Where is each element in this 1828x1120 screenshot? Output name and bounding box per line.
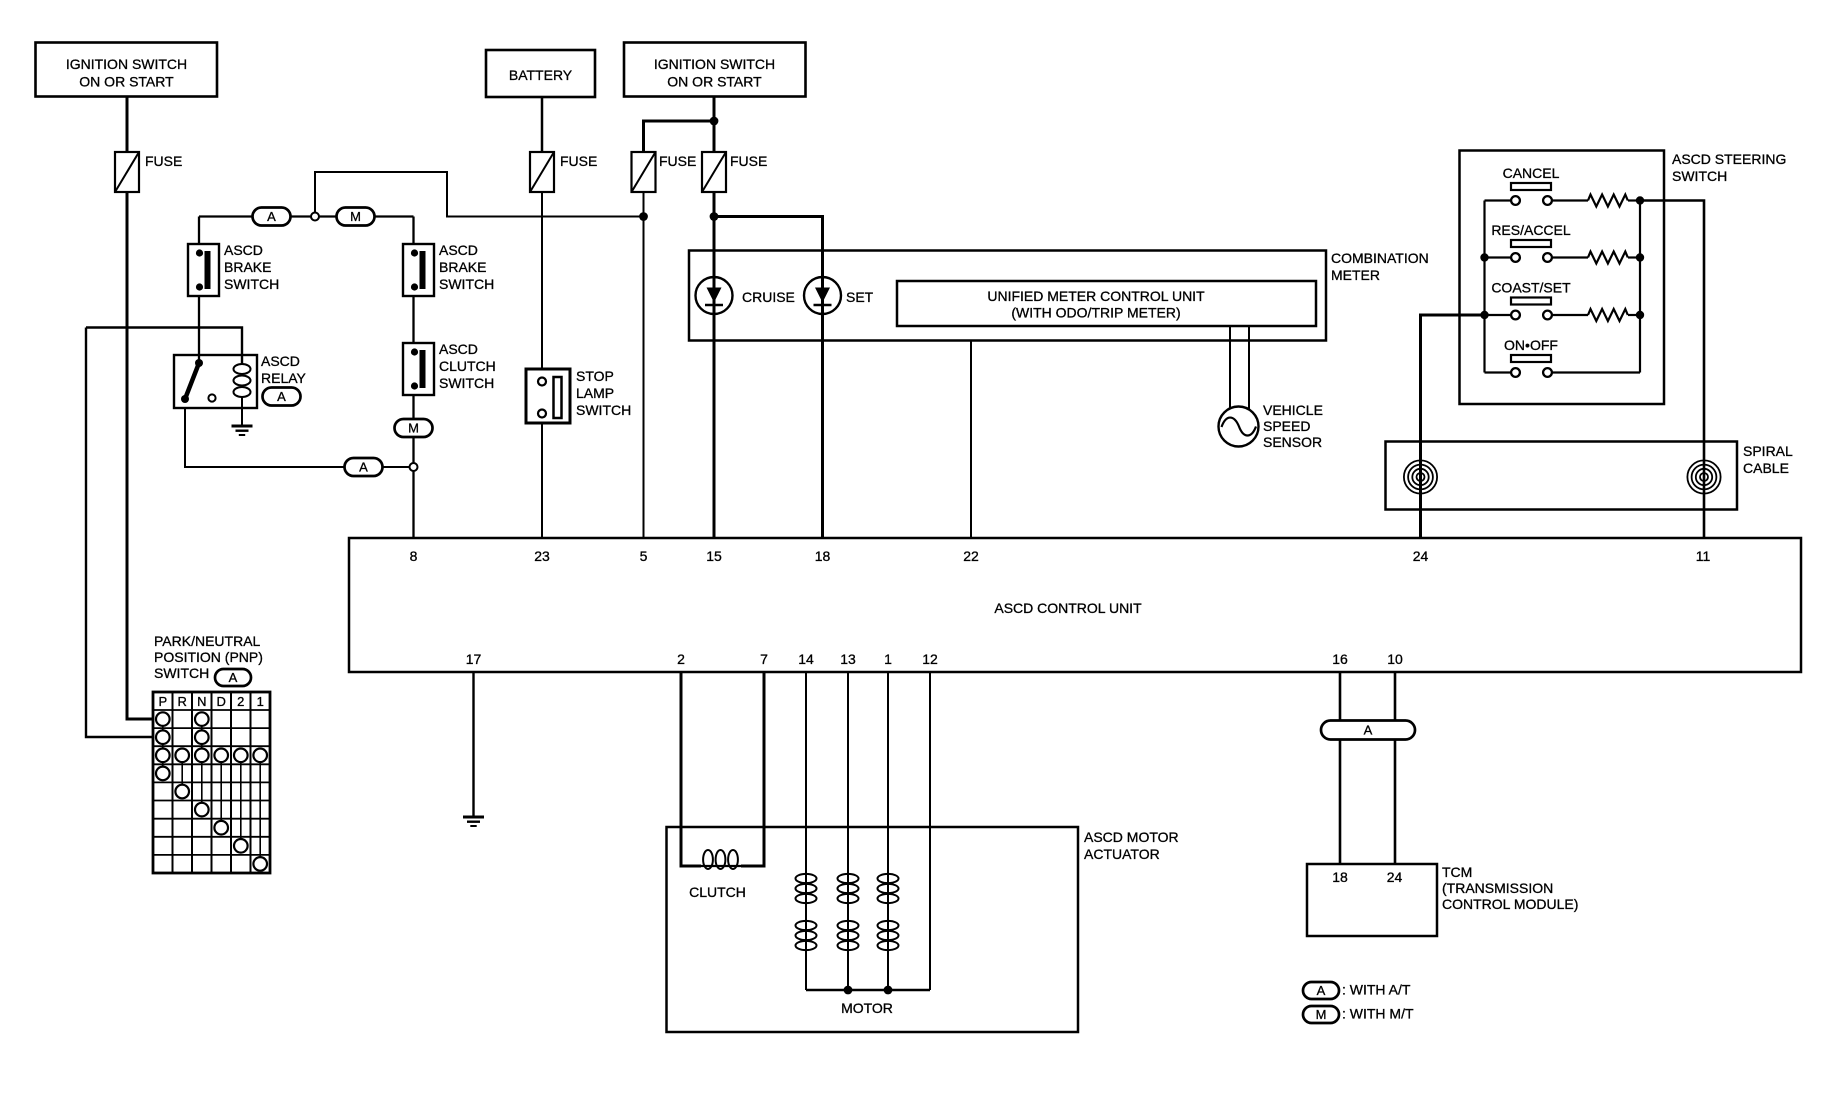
svg-text:13: 13: [840, 651, 856, 667]
svg-text:24: 24: [1387, 869, 1403, 885]
wire to right brake switch: [412, 217, 414, 245]
steering switch row ON&#8226;OFF: [1485, 337, 1558, 377]
wire F2 to stop lamp switch: [541, 192, 543, 369]
wire brake to clutch switch: [412, 296, 414, 343]
PNP contact connector lines: [163, 719, 260, 864]
svg-text:ASCD: ASCD: [439, 242, 478, 258]
steering switch row COAST/SET: [1485, 280, 1572, 320]
wire stop lamp switch to pin 23: [541, 423, 543, 538]
wire branch through SET lamp to pin 18: [714, 217, 823, 539]
svg-text:SWITCH: SWITCH: [576, 402, 631, 418]
wire resistor COAST/SET to bus: [1628, 314, 1640, 316]
svg-text:16: 16: [1332, 651, 1348, 667]
resistor CANCEL: [1588, 195, 1628, 207]
steering switch row CANCEL: [1485, 165, 1560, 205]
wire ON-OFF to right bus: [1552, 371, 1640, 373]
svg-text:STOP: STOP: [576, 368, 614, 384]
svg-text:22: 22: [963, 548, 979, 564]
svg-text:MOTOR: MOTOR: [841, 1000, 893, 1016]
wire brake switch to relay: [198, 296, 200, 360]
svg-text:A: A: [229, 670, 238, 685]
svg-text:RES/ACCEL: RES/ACCEL: [1491, 222, 1571, 238]
combination meter box: [689, 251, 1326, 341]
stop lamp switch: [526, 369, 570, 423]
svg-text:ON OR START: ON OR START: [79, 74, 174, 90]
ignition switch 1 box: [36, 43, 218, 97]
connector oval A (with A/T): [253, 208, 291, 226]
svg-text:POSITION (PNP): POSITION (PNP): [154, 649, 263, 665]
svg-text:CLUTCH: CLUTCH: [439, 358, 496, 374]
ground at pin 17: [463, 817, 484, 826]
wire ignition2 down: [713, 97, 716, 153]
svg-text:ON•OFF: ON•OFF: [1504, 337, 1558, 353]
svg-text:12: 12: [922, 651, 938, 667]
svg-text:18: 18: [815, 548, 831, 564]
wire pin 12 to motor common: [929, 672, 931, 990]
svg-text:IGNITION SWITCH: IGNITION SWITCH: [654, 56, 775, 72]
wire pin 2 to clutch coil: [681, 672, 701, 866]
motor coil winding 2: [838, 874, 859, 950]
wire resistor CANCEL to bus: [1628, 199, 1640, 201]
svg-text:(TRANSMISSION: (TRANSMISSION: [1442, 880, 1553, 896]
svg-text:15: 15: [706, 548, 722, 564]
svg-text:R: R: [178, 694, 187, 709]
svg-text:10: 10: [1387, 651, 1403, 667]
CRUISE indicator lamp: [696, 277, 733, 314]
ASCD motor actuator box: [667, 827, 1079, 1032]
wire combination meter to pin 22: [970, 341, 972, 539]
svg-text:1: 1: [884, 651, 892, 667]
wire CANCEL to resistor: [1552, 199, 1588, 201]
open junction node: [311, 213, 319, 221]
wire F4 through CRUISE lamp to pin 15: [713, 192, 716, 538]
junction on F3 wire: [639, 212, 648, 221]
svg-text:VEHICLE: VEHICLE: [1263, 402, 1323, 418]
svg-text:ASCD MOTOR: ASCD MOTOR: [1084, 829, 1179, 845]
svg-text:ASCD: ASCD: [224, 242, 263, 258]
svg-text:A: A: [277, 389, 286, 404]
svg-text:P: P: [158, 694, 167, 709]
wire UMCU to speed sensor (left): [1229, 326, 1231, 411]
wire RES/ACCEL to resistor: [1552, 256, 1588, 258]
svg-text:8: 8: [410, 548, 418, 564]
wire clutch switch to M oval: [412, 395, 414, 420]
wire pin 17 to ground: [472, 672, 474, 817]
PNP contact circles: [156, 712, 267, 870]
svg-text:FUSE: FUSE: [145, 153, 182, 169]
spiral symbol right: [1687, 460, 1720, 493]
label ASCD brake switch right: [439, 242, 494, 292]
junction left bus RES/ACCEL: [1480, 253, 1488, 261]
oval A on relay output wire: [345, 458, 383, 476]
label ASCD steering switch: [1672, 151, 1786, 184]
svg-text:17: 17: [466, 651, 482, 667]
wire CANCEL row to spiral cable / pin 11: [1640, 201, 1704, 539]
wire relay coil to ground: [241, 397, 243, 426]
svg-text:COMBINATION: COMBINATION: [1331, 250, 1429, 266]
svg-text:FUSE: FUSE: [560, 153, 597, 169]
wire F3 to pin 5: [643, 192, 645, 538]
wire ignition1 to fuse F1: [126, 97, 129, 153]
wire to left brake switch: [198, 217, 200, 245]
junction right bus COAST/SET: [1636, 311, 1644, 319]
label ASCD motor actuator: [1084, 829, 1179, 862]
SET indicator lamp: [804, 277, 841, 314]
label ASCD brake switch left: [224, 242, 279, 292]
svg-text:METER: METER: [1331, 267, 1380, 283]
label stop lamp switch: [576, 368, 631, 418]
svg-text:SET: SET: [846, 289, 874, 305]
ground under relay: [232, 426, 253, 435]
label combination meter: [1331, 250, 1429, 283]
svg-text:SPIRAL: SPIRAL: [1743, 443, 1793, 459]
PNP header letters: [158, 694, 263, 709]
oval A at PNP switch: [215, 669, 251, 686]
wire pin 1 / motor coil 3: [887, 672, 889, 990]
unified meter control unit box: [897, 281, 1316, 326]
svg-text:D: D: [217, 694, 226, 709]
wire battery to fuse F2: [541, 97, 544, 152]
fuse F3: [632, 152, 656, 192]
wire COAST/SET row to spiral cable / pin 24: [1421, 315, 1485, 538]
svg-text:BRAKE: BRAKE: [439, 259, 486, 275]
svg-text:N: N: [197, 694, 206, 709]
label spiral cable: [1743, 443, 1793, 476]
wire PNP feed to relay coil: [86, 328, 242, 365]
svg-text:23: 23: [534, 548, 550, 564]
connector oval M (with M/T): [337, 208, 375, 226]
battery box: [486, 50, 595, 97]
svg-text:24: 24: [1413, 548, 1429, 564]
svg-text:FUSE: FUSE: [730, 153, 767, 169]
wire resistor RES/ACCEL to bus: [1628, 256, 1640, 258]
clutch coil: [701, 850, 741, 869]
wire to junction: [382, 466, 409, 468]
svg-text:CANCEL: CANCEL: [1503, 165, 1560, 181]
svg-text:SENSOR: SENSOR: [1263, 434, 1322, 450]
label ASCD relay: [261, 353, 307, 386]
wire COAST/SET to resistor: [1552, 314, 1588, 316]
svg-text:11: 11: [1696, 548, 1711, 564]
TCM box: [1307, 864, 1437, 936]
svg-text:2: 2: [237, 694, 244, 709]
ignition switch 2 box: [624, 43, 806, 97]
svg-text:7: 7: [760, 651, 768, 667]
svg-text:PARK/NEUTRAL: PARK/NEUTRAL: [154, 633, 261, 649]
wire pin 14 / motor coil 1: [805, 672, 807, 990]
svg-text:BRAKE: BRAKE: [224, 259, 271, 275]
svg-text:IGNITION SWITCH: IGNITION SWITCH: [66, 56, 187, 72]
legend oval M: [1303, 1006, 1339, 1023]
svg-text:SWITCH: SWITCH: [1672, 168, 1727, 184]
svg-text:SPEED: SPEED: [1263, 418, 1310, 434]
svg-text:(WITH ODO/TRIP METER): (WITH ODO/TRIP METER): [1011, 305, 1180, 321]
oval M under clutch switch: [395, 419, 433, 437]
svg-text:14: 14: [798, 651, 814, 667]
fuse F2: [530, 152, 554, 192]
svg-text:CABLE: CABLE: [1743, 460, 1789, 476]
resistor RES/ACCEL: [1588, 252, 1628, 264]
vehicle speed sensor: [1219, 407, 1259, 447]
junction at F4 output: [710, 212, 719, 221]
PNP switch contact table: [153, 692, 270, 873]
ASCD brake switch (left): [188, 244, 219, 296]
ASCD brake switch (right): [403, 244, 434, 296]
svg-text:ASCD: ASCD: [261, 353, 300, 369]
svg-text:CRUISE: CRUISE: [742, 289, 795, 305]
junction motor bus 1: [844, 986, 853, 995]
fuse F1: [115, 152, 139, 192]
svg-text:FUSE: FUSE: [659, 153, 696, 169]
wire pin 7 to clutch coil: [741, 672, 764, 866]
junction ignition2 branch: [710, 117, 719, 126]
resistor COAST/SET: [1588, 309, 1628, 321]
label vehicle speed sensor: [1263, 402, 1323, 450]
steering switch left bus: [1483, 201, 1485, 373]
ASCD steering switch box: [1460, 151, 1665, 405]
label park/neutral position switch: [154, 633, 263, 681]
svg-text:SWITCH: SWITCH: [439, 276, 494, 292]
svg-text:18: 18: [1332, 869, 1348, 885]
svg-text:BATTERY: BATTERY: [509, 67, 573, 83]
svg-text:M: M: [350, 209, 361, 224]
wire branch to fuse F3: [644, 121, 715, 152]
wire jog to fuse F3 output: [315, 172, 644, 217]
ASCD relay: [174, 355, 257, 408]
junction right bus CANCEL: [1636, 196, 1644, 204]
label ASCD clutch switch: [439, 341, 496, 391]
ASCD clutch switch: [403, 343, 434, 395]
wire between ASCD brake switches: [199, 215, 414, 217]
wire M oval to pin 8: [412, 437, 414, 538]
wire pin 16 to TCM 18: [1339, 672, 1342, 864]
svg-text:5: 5: [640, 548, 648, 564]
motor coil winding 3: [878, 874, 899, 950]
svg-text:CLUTCH: CLUTCH: [689, 884, 746, 900]
fuse F4: [702, 152, 726, 192]
svg-text:A: A: [359, 460, 368, 475]
junction right bus RES/ACCEL: [1636, 253, 1644, 261]
wire pin 13 / motor coil 2: [847, 672, 849, 990]
junction left bus COAST/SET: [1480, 311, 1488, 319]
svg-text:SWITCH: SWITCH: [439, 375, 494, 391]
wire relay output: [185, 408, 345, 467]
svg-text:ON OR START: ON OR START: [667, 74, 762, 90]
svg-text:ASCD: ASCD: [439, 341, 478, 357]
junction motor bus 2: [884, 986, 893, 995]
motor coil winding 1: [796, 874, 817, 950]
relay coil: [234, 364, 251, 397]
svg-text:M: M: [408, 421, 419, 436]
steering switch row RES/ACCEL: [1485, 222, 1571, 262]
wire F1 to PNP switch row1: [127, 192, 153, 719]
svg-text:ASCD STEERING: ASCD STEERING: [1672, 151, 1786, 167]
legend oval A: [1303, 982, 1339, 999]
oval A on TCM wires (with A/T): [1321, 721, 1415, 740]
svg-text:COAST/SET: COAST/SET: [1491, 280, 1571, 296]
spiral cable box: [1386, 442, 1738, 510]
svg-text:RELAY: RELAY: [261, 370, 307, 386]
svg-text:A: A: [267, 209, 276, 224]
motor common bus: [806, 989, 930, 991]
wire to PNP switch row2: [86, 328, 153, 738]
svg-text:SWITCH: SWITCH: [154, 665, 209, 681]
svg-text:1: 1: [257, 694, 264, 709]
svg-text:UNIFIED METER CONTROL UNIT: UNIFIED METER CONTROL UNIT: [987, 288, 1205, 304]
open junction node at pin8 wire: [410, 463, 418, 471]
label TCM: [1442, 864, 1578, 912]
svg-text:TCM: TCM: [1442, 864, 1472, 880]
svg-text:2: 2: [677, 651, 685, 667]
wire UMCU to speed sensor (right): [1248, 326, 1250, 410]
wire pin 10 to TCM 24: [1394, 672, 1397, 864]
svg-text:ACTUATOR: ACTUATOR: [1084, 846, 1160, 862]
svg-text:LAMP: LAMP: [576, 385, 614, 401]
svg-text:SWITCH: SWITCH: [224, 276, 279, 292]
steering switch right bus: [1639, 201, 1641, 373]
ASCD control unit box: [349, 538, 1801, 672]
spiral symbol left: [1404, 460, 1437, 493]
svg-text:: WITH M/T: : WITH M/T: [1342, 1006, 1414, 1022]
svg-text:: WITH A/T: : WITH A/T: [1342, 982, 1411, 998]
svg-text:A: A: [1317, 983, 1326, 998]
svg-text:ASCD CONTROL UNIT: ASCD CONTROL UNIT: [994, 600, 1142, 616]
svg-text:M: M: [1316, 1007, 1327, 1022]
oval A at relay: [263, 388, 301, 406]
svg-text:A: A: [1364, 723, 1373, 738]
svg-text:CONTROL MODULE): CONTROL MODULE): [1442, 896, 1578, 912]
